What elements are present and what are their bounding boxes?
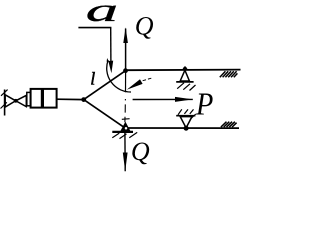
wall hatch tick 1: [1, 90, 8, 96]
node C ground bar: [112, 131, 133, 133]
support E hatch 3: [190, 109, 194, 114]
bottom beam: [125, 127, 239, 129]
force Q down arrowhead: [123, 153, 128, 172]
node C pin hole: [125, 127, 128, 130]
top beam: [126, 69, 241, 72]
centerline dash 2: [124, 117, 126, 123]
bowtie pin dot: [14, 99, 18, 103]
label a leader vertical: [110, 28, 112, 62]
node B dot: [123, 68, 128, 73]
bar A-B (upper inclined): [84, 71, 126, 100]
angle arc: [107, 60, 131, 92]
force Q down line: [124, 132, 126, 172]
node A dot: [81, 97, 86, 102]
support E hatch 1: [178, 109, 182, 115]
centerline dot: [124, 99, 126, 100]
turnbuckle body rect: [31, 89, 57, 108]
turnbuckle hook bowtie left triangle: [5, 95, 16, 107]
svg-text:P: P: [195, 86, 213, 122]
support D ground line: [176, 81, 193, 83]
force Q up arrowhead: [123, 27, 128, 43]
svg-text:l: l: [90, 69, 95, 89]
centerline tick: [122, 118, 130, 121]
leader arrowhead at arc: [127, 79, 143, 89]
angle arc end tick: [107, 58, 109, 62]
wall hatch tick 2: [1, 102, 7, 108]
node C hatch 1: [112, 133, 119, 138]
support D hatch 3: [190, 85, 196, 91]
centerline solid upper part: [125, 71, 127, 93]
support D hatch 2: [183, 84, 190, 90]
label a leader arrowhead: [108, 61, 113, 74]
force Q up line: [125, 29, 127, 71]
support E hatch 4: [190, 114, 196, 120]
wall anchor line (left): [4, 90, 6, 116]
support E hatch 2: [184, 109, 188, 114]
support E pin dot: [184, 126, 189, 131]
force P arrowhead: [175, 97, 193, 102]
support E triangle: [180, 117, 192, 128]
turnbuckle divider: [41, 89, 44, 108]
node C support triangle (filled): [120, 122, 130, 132]
wall embed hatching top right: [220, 71, 238, 77]
label a underline: [78, 27, 111, 29]
force P line: [133, 98, 193, 100]
turnbuckle hook bowtie right triangle: [16, 95, 27, 106]
support D triangle: [180, 70, 189, 81]
node C hatch 2: [120, 134, 127, 139]
support D pin diamond: [183, 66, 188, 71]
tie rod to node A: [57, 98, 85, 100]
support D hatch 1: [177, 83, 184, 89]
svg-text:a: a: [86, 0, 119, 28]
node C hatch 3: [129, 132, 137, 137]
centerline dash 1: [124, 104, 126, 112]
support E ground line: [176, 115, 195, 117]
svg-text:Q: Q: [135, 12, 154, 41]
svg-text:Q: Q: [131, 137, 150, 166]
wall embed hatching bottom right: [221, 122, 237, 127]
turnbuckle cap rect: [27, 92, 31, 105]
bar A-C (lower inclined): [84, 100, 125, 128]
leader arrow to arc (dashed tail): [141, 78, 152, 81]
